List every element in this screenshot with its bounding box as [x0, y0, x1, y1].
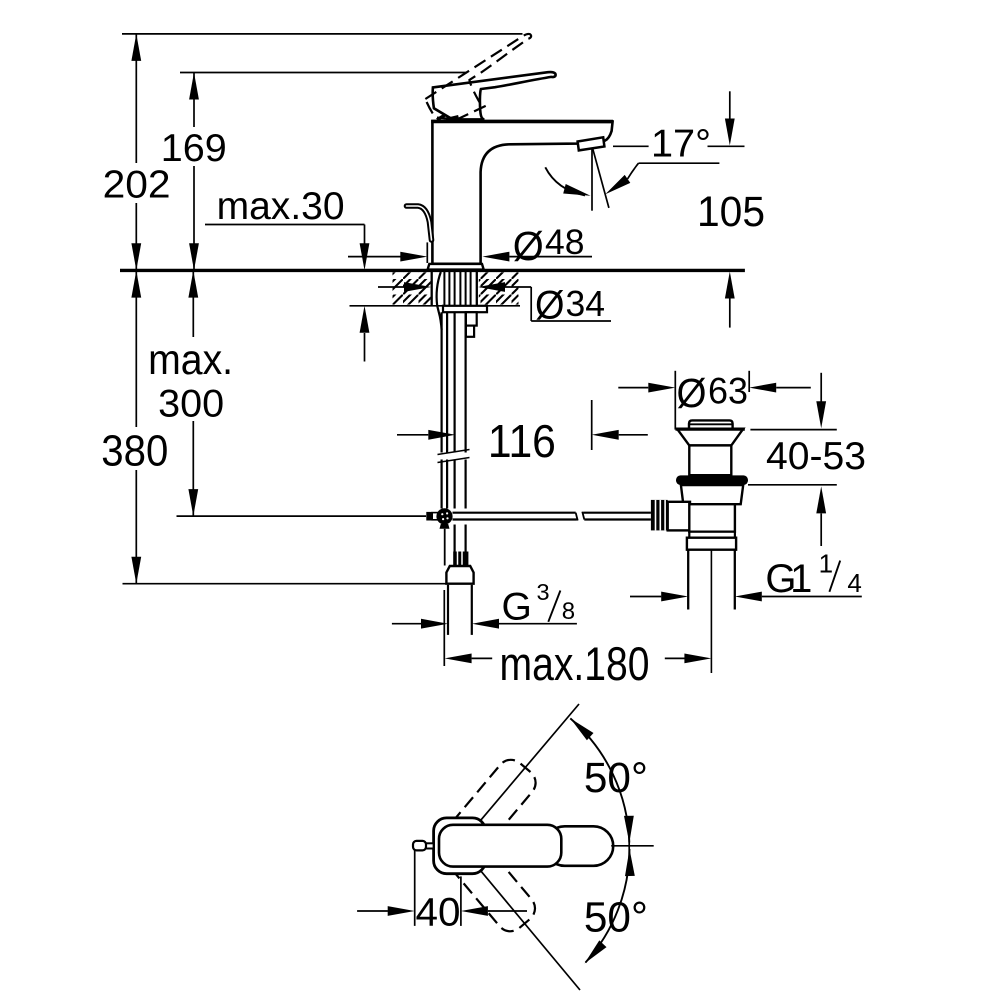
dia34 underline — [531, 320, 611, 322]
max.30 arrow up — [360, 306, 370, 333]
spout top thick line — [431, 120, 613, 124]
arrow 169 bottom — [189, 243, 199, 270]
ext line top of raised handle — [122, 33, 523, 35]
lower arc arrowhead bottom — [585, 940, 607, 963]
17 deg tilted line — [593, 149, 609, 208]
svg-text:300: 300 — [158, 382, 224, 425]
handle lever solid — [433, 72, 556, 119]
spout outlet ext line right — [708, 145, 745, 147]
body top view — [434, 818, 486, 874]
G38 arrow left — [472, 619, 499, 629]
arc arrowhead right — [563, 184, 590, 196]
tailpipe left — [687, 550, 689, 610]
105 arrow up — [725, 272, 735, 299]
116 ext line spout axis — [591, 400, 593, 450]
max.30 leader line — [205, 224, 365, 226]
swing line upper 50deg — [460, 704, 580, 845]
spout axis vertical line — [591, 149, 593, 210]
dia34 leader step — [530, 287, 532, 321]
40 arrow left — [461, 906, 488, 916]
side inlet stub — [668, 502, 690, 531]
waste body lower — [689, 504, 735, 532]
40 left tail — [357, 910, 388, 912]
shank walls through deck — [431, 272, 433, 306]
dia48 left tail — [348, 256, 401, 258]
washer bottom ext line — [748, 484, 837, 486]
116 right tail — [619, 434, 648, 436]
dia63 arrow right — [648, 383, 675, 393]
G38 knurl — [453, 552, 468, 567]
rod break marks — [576, 513, 578, 521]
40-53 arrow up — [816, 486, 826, 513]
upper arc arrowhead bottom — [624, 816, 634, 843]
G38 arrow right — [421, 619, 448, 629]
svg-text:G1: G1 — [765, 557, 812, 601]
dim 380 line — [135, 270, 137, 427]
hose break marks — [438, 450, 470, 455]
max180 arrow right — [684, 654, 711, 664]
side inlet knurl — [651, 500, 668, 531]
svg-text:169: 169 — [161, 127, 227, 170]
svg-text:105: 105 — [697, 189, 765, 236]
max.30 arrow down — [360, 243, 370, 270]
dim 202 line — [135, 34, 137, 163]
G114 left tail — [630, 596, 661, 598]
slip nut — [689, 532, 735, 538]
svg-text:50°: 50° — [584, 895, 648, 942]
svg-text:63: 63 — [708, 371, 748, 412]
dia63 left tail — [618, 387, 648, 389]
handle base wedges — [437, 115, 445, 120]
dim 169 line — [193, 73, 195, 128]
ext line top of handle — [180, 72, 466, 74]
lower 50deg arc — [586, 849, 630, 963]
upper arc arrowhead top — [570, 718, 593, 740]
max180 arrow left — [445, 654, 472, 664]
dia34 right tail — [505, 286, 531, 288]
waste centerline — [710, 508, 712, 673]
ball joint — [436, 508, 452, 524]
base escutcheon — [428, 264, 484, 270]
G38 nut — [446, 566, 473, 584]
svg-text:34: 34 — [566, 283, 606, 324]
svg-text:1: 1 — [819, 549, 833, 579]
dia63 arrow left — [749, 383, 776, 393]
dashed handle rotated up — [431, 754, 542, 875]
pop-up rod top right — [583, 512, 651, 514]
dim max300 line — [192, 270, 194, 337]
dim 105 lower line — [729, 298, 731, 328]
waste body mid — [681, 485, 743, 504]
svg-text:116: 116 — [488, 415, 556, 467]
dia63 ext left — [674, 371, 676, 430]
max300 arrow up — [188, 271, 198, 298]
svg-text:40-53: 40-53 — [766, 435, 866, 478]
G114 arrow left — [735, 592, 762, 602]
dim 105 upper line — [729, 91, 731, 120]
svg-text:40: 40 — [416, 891, 461, 935]
pop-up pull rod — [407, 206, 432, 240]
waste body upper — [689, 445, 731, 475]
tailpipe right — [734, 550, 736, 610]
svg-text:50°: 50° — [584, 755, 648, 802]
deck hatching right — [479, 272, 519, 304]
dia48 right tail underline — [509, 256, 592, 258]
40-53 arrow down — [816, 401, 826, 428]
40 right tail — [488, 910, 527, 912]
17 deg leader horizontal — [639, 162, 720, 164]
40 ext left — [414, 850, 416, 926]
arrow 202 top — [131, 34, 141, 61]
spout outlet ext line left — [613, 145, 649, 147]
dia63 ext right — [748, 371, 750, 392]
G38 thread left — [447, 585, 449, 635]
380 arrow down — [131, 557, 141, 584]
40 ext right — [460, 876, 462, 926]
G38 dim left tail — [392, 623, 421, 625]
deck hatching left — [393, 272, 431, 304]
deck top line — [120, 269, 745, 272]
dia63 right tail — [776, 387, 811, 389]
tick on centerline — [628, 833, 630, 861]
flange top thick line — [676, 428, 745, 431]
svg-text:Ø: Ø — [535, 284, 565, 328]
G114 right tail underline — [762, 596, 862, 598]
shank inner tubes in deck — [443, 272, 445, 306]
arrowhead to tilted line — [605, 175, 630, 194]
svg-text:3: 3 — [537, 579, 550, 605]
rod end nub — [426, 512, 432, 521]
116 arrow left — [592, 430, 619, 440]
pop-up rod bottom right — [584, 518, 651, 520]
svg-text:max.30: max.30 — [217, 185, 345, 228]
max.30 upper arrow line — [364, 225, 366, 245]
rubber washer — [676, 475, 748, 485]
pop-up rod top — [453, 512, 576, 514]
rear tab — [425, 843, 434, 848]
hose curve below deck — [437, 272, 442, 330]
swing line lower 50deg — [460, 845, 581, 990]
upper 50deg arc — [570, 718, 629, 842]
105 arrow down — [725, 119, 735, 146]
dia48 arrow left — [482, 252, 509, 262]
svg-text:G: G — [502, 586, 532, 629]
mounting washer plate — [443, 306, 487, 312]
handle extension top view — [545, 826, 613, 866]
max180 line right — [665, 657, 685, 659]
waste knob — [689, 420, 733, 428]
pop-up rod bottom — [453, 518, 577, 520]
116 left tail — [397, 434, 428, 436]
svg-text:48: 48 — [545, 222, 585, 262]
40 arrow right — [388, 906, 415, 916]
aerator at spout tip — [578, 137, 605, 150]
40-53 lower line — [820, 514, 822, 547]
hose lines — [454, 272, 456, 306]
svg-text:max.: max. — [148, 337, 233, 384]
svg-text:Ø: Ø — [513, 223, 544, 269]
knob cap line — [689, 423, 733, 425]
water arc — [545, 167, 585, 195]
svg-text:17°: 17° — [651, 123, 711, 166]
supply level ext line — [177, 515, 427, 517]
flange top ext line — [750, 429, 836, 431]
arrow 169 top — [189, 73, 199, 100]
arrow 202 bottom — [131, 243, 141, 270]
G114 arrow right — [661, 592, 688, 602]
handle grip top view — [439, 825, 561, 867]
max300 arrow down — [188, 489, 198, 516]
G38 dim right tail underline — [499, 623, 577, 625]
116 arrow right — [428, 430, 455, 440]
deck bottom line — [350, 305, 521, 307]
faucet body and spout — [432, 121, 612, 264]
svg-text:max.180: max.180 — [500, 637, 650, 690]
svg-text:Ø: Ø — [677, 370, 707, 416]
dashed handle rotated down — [430, 816, 541, 937]
hose end ext line — [123, 583, 474, 585]
dia34 arrow right — [404, 282, 431, 292]
G38 thread right — [471, 585, 473, 635]
svg-text:380: 380 — [101, 426, 168, 475]
waste flange — [677, 429, 743, 446]
mounting nut — [466, 312, 477, 325]
svg-text:4: 4 — [847, 568, 861, 598]
dia34 arrow left — [478, 282, 505, 292]
handle lever dashed raised position — [419, 33, 550, 128]
dia48 arrow right — [400, 252, 427, 262]
max180 line left — [472, 657, 493, 659]
svg-text:8: 8 — [562, 598, 575, 625]
centerline right — [611, 845, 654, 847]
380 arrow up — [131, 271, 141, 298]
40-53 upper line — [820, 373, 822, 402]
dia48 ext line — [426, 242, 428, 263]
dia34 left tail — [378, 286, 404, 288]
lower arc arrowhead top — [625, 849, 635, 876]
max.30 lower arrow line — [364, 333, 366, 362]
max180 ext left — [443, 590, 445, 666]
